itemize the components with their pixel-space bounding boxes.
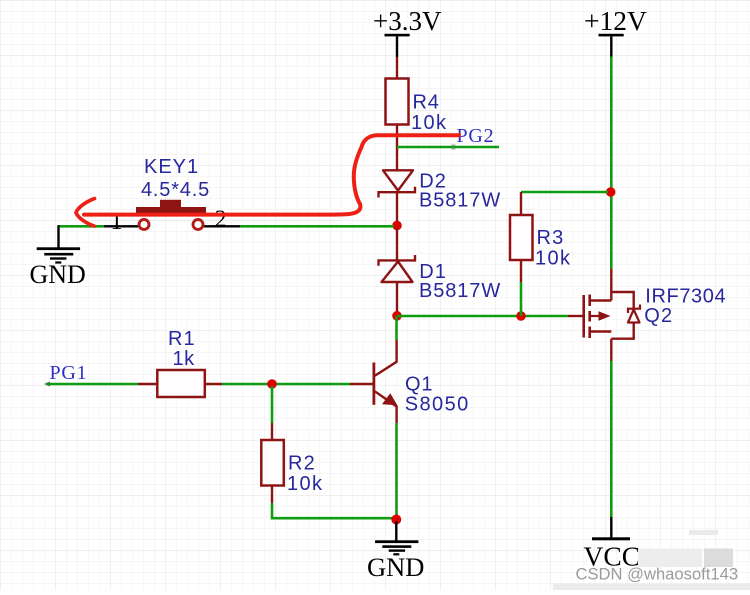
watermark blur patch top: [689, 530, 718, 535]
wire gate net green: [397, 315, 568, 318]
power +3.3V bar symbol: [385, 34, 410, 37]
wire R3 top green: [521, 191, 608, 194]
net tick on PG2 wire: [452, 145, 456, 150]
junction node gate net mid: [516, 311, 526, 321]
svg-text:PG1: PG1: [50, 362, 88, 384]
watermark blur patch dark: [704, 549, 733, 568]
resistor R1: [157, 370, 205, 397]
wire GND bottom drop black: [395, 521, 397, 541]
wire collector green: [395, 316, 398, 340]
resistor R2: [261, 440, 284, 486]
watermark blur strip bottom: [553, 584, 750, 591]
svg-text:10k: 10k: [411, 112, 447, 134]
wire +12V black stub: [610, 36, 612, 56]
wire emitter green: [395, 423, 398, 517]
wire VCC black stub: [610, 517, 612, 538]
mosfet Q2 body diode bar: [628, 305, 640, 314]
svg-text:PG2: PG2: [457, 125, 495, 147]
wire switch pin1 black: [104, 225, 139, 227]
svg-text:GND: GND: [30, 260, 86, 289]
wire R2 to GND green: [272, 503, 393, 518]
svg-text:4.5*4.5: 4.5*4.5: [141, 179, 210, 201]
svg-text:S8050: S8050: [405, 394, 470, 416]
wire base stub dark red: [350, 383, 374, 385]
svg-text:1k: 1k: [173, 348, 196, 370]
svg-text:B5817W: B5817W: [419, 190, 501, 212]
junction node D2/D1/switch: [392, 221, 402, 231]
junction node base/R2: [267, 379, 277, 389]
wire R2 top green: [271, 386, 274, 423]
svg-text:Q1: Q1: [405, 374, 433, 396]
wire R3 bottom lead: [520, 260, 522, 282]
svg-text:R4: R4: [413, 92, 440, 114]
svg-text:GND: GND: [367, 552, 424, 582]
diode D1 schottky cathode bar: [379, 255, 416, 266]
wire R3 top lead: [520, 192, 522, 215]
mosfet Q2 source horizontal: [590, 299, 612, 301]
svg-text:+12V: +12V: [584, 5, 647, 36]
mosfet Q2 gate bar: [582, 295, 585, 338]
mosfet Q2 body diode triangle: [628, 310, 640, 323]
transistor Q1 emitter arrow: [382, 393, 397, 405]
wire R3 bottom green: [520, 282, 523, 316]
transistor Q1 emitter diagonal: [375, 391, 397, 406]
wire R2 bottom lead: [271, 486, 273, 504]
wire R1 left lead: [138, 383, 157, 385]
wire PG1 green: [47, 383, 139, 386]
resistor R3: [510, 215, 533, 260]
power VCC bar symbol: [592, 537, 630, 540]
switch KEY1 pin circle 2: [193, 220, 203, 230]
junction node +12V/R3: [606, 187, 616, 197]
svg-text:CSDN @whaosoft143: CSDN @whaosoft143: [576, 565, 739, 584]
wire D1 top lead: [396, 228, 398, 260]
watermark blur patch light: [638, 549, 702, 568]
annotation red arrow head: [76, 199, 95, 227]
svg-text:R1: R1: [168, 328, 196, 350]
svg-text:+3.3V: +3.3V: [373, 6, 442, 36]
svg-text:10k: 10k: [287, 473, 323, 495]
switch KEY1 bar: [136, 207, 206, 213]
ground symbol left: [37, 247, 80, 263]
wire gate stub dark red: [568, 315, 583, 317]
mosfet Q2 arrow head: [599, 311, 611, 321]
wire R4 bottom lead: [396, 125, 398, 171]
wire base net green: [222, 383, 350, 386]
wire D2 cathode lead: [396, 192, 398, 223]
wire D1 anode lead: [396, 282, 398, 313]
svg-text:R2: R2: [288, 453, 316, 475]
switch KEY1 pin circle 1: [139, 220, 149, 230]
power +12V bar symbol: [599, 34, 624, 37]
svg-text:2: 2: [215, 206, 227, 232]
wire net PG2 green: [397, 146, 499, 149]
port PG1 arrow tick: [44, 381, 50, 386]
wire R1 right lead: [205, 383, 222, 385]
mosfet Q2 drain pin: [610, 339, 612, 361]
wire R2 top lead: [271, 423, 273, 440]
mosfet Q2 arrow line: [590, 315, 599, 317]
wire VCC green: [610, 361, 613, 517]
diode D1 triangle: [382, 262, 413, 283]
svg-text:KEY1: KEY1: [144, 156, 199, 178]
mosfet Q2 drain horizontal: [590, 330, 612, 332]
mosfet Q2 channel dashes: [588, 295, 591, 339]
svg-text:B5817W: B5817W: [419, 280, 501, 302]
mosfet Q2 source pin: [610, 269, 612, 301]
junction node emitter/R2/GND: [391, 515, 401, 525]
wire to GND green: [58, 225, 104, 228]
wire emitter lead: [395, 406, 397, 424]
resistor R4: [386, 79, 409, 125]
wire R4 top lead: [396, 57, 398, 78]
svg-text:Q2: Q2: [644, 305, 673, 327]
wire switch to junction green: [240, 225, 394, 228]
switch KEY1 actuator bump: [160, 200, 181, 207]
wire +12V rail green: [610, 57, 613, 270]
transistor Q1 base bar: [372, 363, 375, 405]
wire GND drop black: [57, 225, 59, 247]
transistor Q1 collector diagonal: [375, 340, 397, 376]
wire +3.3V black stub: [396, 36, 398, 57]
annotation red freehand line: [84, 135, 459, 214]
mosfet Q2 body diode branch: [611, 292, 633, 339]
ground symbol bottom: [375, 540, 418, 555]
svg-text:10k: 10k: [535, 248, 571, 270]
wire switch pin2 black: [204, 225, 240, 227]
svg-text:R3: R3: [537, 227, 565, 249]
diode D2 triangle: [383, 170, 413, 190]
junction node gate net left: [392, 311, 402, 321]
diode D2 schottky cathode bar: [379, 187, 416, 198]
